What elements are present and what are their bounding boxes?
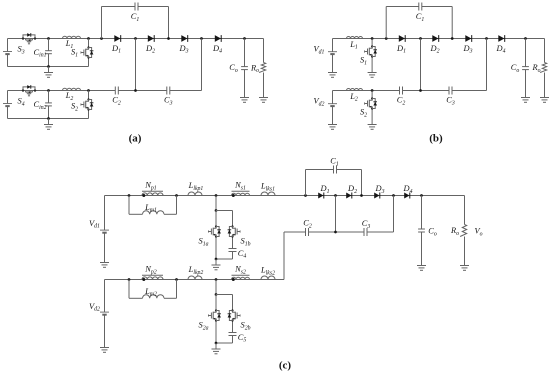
- label Co (b): [511, 63, 520, 74]
- wire S1 block bottom: [216, 258, 233, 260]
- label C2 (a): [112, 96, 121, 107]
- ground Co (c): [417, 260, 426, 271]
- wire Lm2 bottom left: [129, 297, 143, 299]
- node ground (a upper): [47, 65, 50, 68]
- wire riser C3 row to D3D4 (a): [201, 39, 203, 91]
- inductor L1 (b): [347, 37, 363, 39]
- svg-text:D1: D1: [396, 44, 406, 55]
- capacitor C3 (b): [449, 87, 452, 95]
- label C2 (c): [303, 219, 312, 230]
- svg-text:D4: D4: [212, 44, 222, 55]
- label S2b: [241, 321, 251, 332]
- transistor S2a: [208, 295, 221, 344]
- capacitor Co (a): [241, 39, 248, 92]
- wire Lm2 bottom right: [164, 297, 177, 299]
- capacitor Co (b): [522, 39, 529, 92]
- wire C1 right leg (c): [361, 170, 363, 196]
- label L1 (a): [65, 39, 74, 50]
- ground Vd1 (c): [100, 257, 109, 268]
- ground (a upper): [44, 67, 53, 78]
- svg-text:Co: Co: [428, 227, 437, 238]
- node Np2 right: [175, 278, 178, 281]
- winding Ns1: [232, 191, 250, 197]
- svg-text:Lm2: Lm2: [144, 287, 157, 298]
- capacitor Cin1: [45, 39, 52, 67]
- label (a): [129, 133, 142, 145]
- ground Ro (c): [460, 260, 469, 271]
- label Ro (b): [531, 63, 540, 74]
- winding Ns2: [232, 275, 250, 281]
- svg-text:S1: S1: [360, 56, 367, 67]
- diode D2 (b): [432, 35, 438, 42]
- transistor S4: [22, 85, 36, 96]
- node C1 right (a): [167, 37, 170, 40]
- wire Ro top (a): [263, 39, 265, 63]
- svg-text:L2: L2: [349, 92, 358, 103]
- svg-text:Lm1: Lm1: [144, 203, 157, 214]
- wire C1 left leg (c): [305, 170, 307, 196]
- node S1 block split: [215, 209, 218, 212]
- wire Lm2 right leg: [176, 280, 178, 299]
- label L2 (a): [65, 91, 74, 102]
- svg-text:C3: C3: [362, 219, 371, 230]
- label Vd1 (c): [89, 219, 100, 230]
- battery Vd1 (c): [100, 196, 109, 257]
- label C3 (c): [362, 219, 371, 230]
- transistor S2 (b): [365, 91, 378, 119]
- capacitor C3 (c): [364, 228, 367, 236]
- diode D2 (a): [148, 35, 154, 42]
- ground S2 block: [212, 343, 221, 354]
- winding Np1: [142, 191, 163, 197]
- svg-text:Ro: Ro: [531, 63, 540, 74]
- transistor S2b: [228, 295, 241, 333]
- node S2 block tap: [215, 278, 218, 281]
- wire (a) lower rail left: [8, 90, 116, 92]
- svg-text:S2a: S2a: [199, 321, 209, 332]
- wire (c) row right: [367, 231, 394, 233]
- label L1 (b): [349, 40, 358, 51]
- diode D3 (c): [374, 193, 380, 199]
- diode D3 (a): [181, 35, 187, 42]
- capacitor C2 (b): [400, 87, 403, 95]
- label (c): [279, 360, 292, 372]
- transistor S1a: [208, 211, 221, 260]
- transistor S3: [22, 33, 36, 44]
- wire Ro bottom (b): [544, 73, 546, 92]
- label S1a: [199, 237, 209, 248]
- wire Lm1 left leg: [128, 196, 130, 215]
- label Llks1: [260, 182, 275, 193]
- label C1 (b): [416, 12, 425, 23]
- wire Lm1 bottom right: [164, 213, 177, 215]
- label S1b: [241, 237, 251, 248]
- wire C1 left leg (b): [385, 7, 387, 39]
- node D3-D4 (b): [485, 37, 488, 40]
- wire S2 block riser: [215, 280, 217, 295]
- svg-text:C1: C1: [330, 157, 339, 168]
- node Np2 left: [128, 278, 131, 281]
- label S4: [18, 97, 25, 108]
- battery Vd2 (c): [100, 280, 109, 342]
- node C1 right (c): [360, 194, 363, 197]
- wire riser D1D2 to C2 row (a): [135, 39, 137, 91]
- wire (c) row mid: [309, 231, 365, 233]
- node output (c): [420, 194, 423, 197]
- wire riser D1D2 to C2 row (c): [335, 196, 337, 233]
- svg-text:D3: D3: [463, 44, 473, 55]
- node D1-D2 (c): [334, 194, 337, 197]
- svg-text:Llkp2: Llkp2: [188, 265, 204, 276]
- svg-text:D1: D1: [320, 184, 330, 195]
- svg-text:Ns1: Ns1: [234, 181, 246, 192]
- svg-text:Co: Co: [229, 63, 238, 74]
- label Llks2: [260, 266, 275, 277]
- wire (a) top rail: [8, 38, 264, 40]
- label Vd2 (b): [314, 97, 325, 108]
- svg-text:(c): (c): [279, 360, 292, 372]
- battery Vd1 (b): [328, 39, 337, 67]
- node S2 block bottom: [215, 342, 218, 345]
- node C1 right (b): [451, 37, 454, 40]
- node D1-D2 (b): [419, 37, 422, 40]
- wire C1 right leg (a): [168, 7, 170, 39]
- svg-text:D2: D2: [145, 44, 155, 55]
- label C4: [238, 249, 247, 260]
- svg-text:C5: C5: [238, 333, 247, 344]
- label C3 (b): [446, 96, 455, 107]
- svg-text:Ro: Ro: [450, 226, 459, 237]
- svg-text:S4: S4: [18, 97, 25, 108]
- svg-text:Vd1: Vd1: [314, 45, 325, 56]
- svg-text:D1: D1: [111, 44, 121, 55]
- svg-text:Llks1: Llks1: [260, 182, 275, 193]
- node S1 block tap: [215, 194, 218, 197]
- node Np1 right: [175, 194, 178, 197]
- label D1 (b): [396, 44, 406, 55]
- inductor Llkp2: [188, 276, 202, 280]
- capacitor C1 (c): [306, 166, 362, 174]
- svg-text:C2: C2: [303, 219, 312, 230]
- wire (a) upper bottom rail: [8, 66, 89, 68]
- label Cin1: [33, 48, 46, 59]
- wire (b) lower rail left: [333, 90, 400, 92]
- wire Lm1 right leg: [176, 196, 178, 215]
- label Lm2: [144, 287, 157, 298]
- label D2 (c): [347, 184, 357, 195]
- label D4 (a): [212, 44, 222, 55]
- svg-text:C3: C3: [446, 96, 455, 107]
- label Ro (c): [450, 226, 459, 237]
- svg-text:S3: S3: [18, 45, 25, 56]
- diode D1 (b): [399, 35, 405, 42]
- capacitor Co (c): [418, 196, 425, 260]
- diode D4 (c): [404, 193, 410, 199]
- diode D4 (b): [498, 35, 504, 42]
- node S1 drain (a): [87, 37, 90, 40]
- svg-text:Co: Co: [511, 63, 520, 74]
- capacitor C5: [229, 333, 237, 344]
- label Ns1: [234, 181, 246, 192]
- wire Lm2 left leg: [128, 280, 130, 299]
- node S2 drain (b): [371, 89, 374, 92]
- label C3 (a): [164, 96, 173, 107]
- label Vd2 (c): [89, 302, 100, 313]
- label Co (c): [428, 227, 437, 238]
- svg-text:S1: S1: [71, 48, 78, 59]
- ground S1 (b): [368, 67, 377, 78]
- diode D1 (a): [114, 35, 120, 42]
- wire (c) lower rail: [105, 279, 285, 281]
- wire (c) upper rail: [105, 195, 465, 197]
- resistor Ro (a): [259, 63, 266, 73]
- ground Vd2 (b): [328, 119, 337, 130]
- label Ro (a): [250, 63, 259, 74]
- wire C1 right leg (b): [451, 7, 453, 39]
- wire (c) row left: [284, 231, 306, 233]
- diode D3 (b): [465, 35, 471, 42]
- node output (b): [524, 37, 527, 40]
- svg-text:S2b: S2b: [241, 321, 251, 332]
- wire (c) row drop: [283, 232, 285, 280]
- svg-text:Np2: Np2: [144, 265, 156, 276]
- battery Vd2 (b): [328, 91, 337, 119]
- wire S2 block bottom: [216, 342, 233, 344]
- node Cin2 top: [47, 89, 50, 92]
- label S1 (b): [360, 56, 367, 67]
- svg-text:Vo: Vo: [474, 227, 482, 238]
- capacitor C2 (c): [306, 228, 309, 236]
- ground S1 block: [212, 259, 221, 270]
- svg-text:Vd2: Vd2: [314, 97, 325, 108]
- wire (a) lower bottom rail: [8, 118, 89, 120]
- wire S2b top branch: [216, 294, 233, 296]
- label Np2: [144, 265, 156, 276]
- wire S1 block riser: [215, 196, 217, 211]
- ground Co (a): [240, 92, 249, 103]
- svg-text:S2: S2: [360, 108, 367, 119]
- battery V1 (a upper): [3, 39, 12, 67]
- node Cin1 top: [47, 37, 50, 40]
- label D4 (b): [496, 44, 506, 55]
- svg-text:Vd2: Vd2: [89, 302, 100, 313]
- wire (b) C2-C3 row: [403, 90, 450, 92]
- svg-text:Llks2: Llks2: [260, 266, 275, 277]
- svg-text:C2: C2: [112, 96, 121, 107]
- node D1-D2 (a): [134, 37, 137, 40]
- node C1 left (b): [385, 37, 388, 40]
- diode D2 (c): [346, 193, 352, 199]
- inductor Lm2: [143, 295, 165, 299]
- node S1 block bottom: [215, 258, 218, 261]
- node row riser (c): [334, 231, 337, 234]
- svg-text:S1b: S1b: [241, 237, 251, 248]
- svg-text:D3: D3: [179, 44, 189, 55]
- wire C1 left leg (a): [101, 7, 103, 39]
- ground Vd2 (c): [100, 342, 109, 353]
- svg-text:C1: C1: [131, 12, 140, 23]
- label S3: [18, 45, 25, 56]
- node Np1 left: [128, 194, 131, 197]
- wire Ro bottom (c): [464, 237, 466, 260]
- wire (a) row to riser: [170, 90, 202, 92]
- wire (b) row right: [452, 90, 487, 92]
- inductor L1 (a): [63, 36, 81, 38]
- node D3-D4 (c): [392, 194, 395, 197]
- wire riser D1D2 to C2 row (b): [420, 39, 422, 91]
- transistor S1 (b): [365, 39, 378, 67]
- diode D1 (c): [318, 193, 324, 199]
- node S2 block split: [215, 293, 218, 296]
- diode D4 (a): [215, 35, 221, 42]
- capacitor C1 (b): [386, 3, 452, 11]
- wire (a) C2-C3 row: [118, 90, 167, 92]
- svg-text:S2: S2: [71, 102, 78, 113]
- node C1 left (c): [304, 194, 307, 197]
- wire Ro bottom (a): [263, 73, 265, 92]
- label Ns2: [234, 265, 246, 276]
- wire S1b top branch: [216, 210, 233, 212]
- inductor Lm1: [143, 211, 165, 215]
- svg-text:Ro: Ro: [250, 63, 259, 74]
- resistor Ro (b): [540, 63, 547, 73]
- ground Ro (b): [540, 92, 549, 103]
- transistor S2 (a): [81, 91, 94, 119]
- label (b): [429, 133, 443, 145]
- wire riser C3 row to D3D4 (b): [486, 39, 488, 91]
- capacitor C3 (a): [167, 87, 170, 95]
- node S1 drain (b): [371, 37, 374, 40]
- inductor L2 (a): [63, 88, 81, 90]
- label C5: [238, 333, 247, 344]
- svg-text:D4: D4: [403, 184, 413, 195]
- label S2 (a): [71, 102, 78, 113]
- svg-text:Np1: Np1: [144, 181, 156, 192]
- wire Lm1 bottom left: [129, 213, 143, 215]
- svg-text:C3: C3: [164, 96, 173, 107]
- label D2 (a): [145, 44, 155, 55]
- ground Ro (a): [259, 92, 268, 103]
- ground Vd1 (b): [328, 67, 337, 78]
- node ground (a lower): [47, 117, 50, 120]
- svg-text:Vd1: Vd1: [89, 219, 100, 230]
- svg-text:D4: D4: [496, 44, 506, 55]
- label D1 (a): [111, 44, 121, 55]
- ground (a lower): [44, 119, 53, 130]
- label D4 (c): [403, 184, 413, 195]
- label D3 (a): [179, 44, 189, 55]
- wire Ro top (c): [464, 196, 466, 225]
- svg-text:D2: D2: [430, 44, 440, 55]
- label D3 (b): [463, 44, 473, 55]
- label Co (a): [229, 63, 238, 74]
- node D3-D4 (a): [200, 37, 203, 40]
- label S1 (a): [71, 48, 78, 59]
- resistor Ro (c): [460, 225, 467, 237]
- svg-text:Cin1: Cin1: [33, 48, 46, 59]
- capacitor C1 (a): [102, 3, 169, 11]
- node S2 drain (a): [87, 89, 90, 92]
- transistor S1 (a): [81, 39, 94, 67]
- ground Co (b): [521, 92, 530, 103]
- label Np1: [144, 181, 156, 192]
- label Cin2: [33, 100, 46, 111]
- winding Np2: [142, 275, 163, 281]
- wire riser C3 row to D3D4 (c): [393, 196, 395, 233]
- svg-text:Ns2: Ns2: [234, 265, 246, 276]
- label C1 (a): [131, 12, 140, 23]
- svg-text:(a): (a): [129, 133, 142, 145]
- wire (b) top rail: [333, 38, 545, 40]
- svg-text:Cin2: Cin2: [33, 100, 46, 111]
- inductor Llks1: [261, 192, 275, 196]
- label D1 (c): [320, 184, 330, 195]
- label S2a: [199, 321, 209, 332]
- label Lm1: [144, 203, 157, 214]
- label Vd1 (b): [314, 45, 325, 56]
- inductor Llks2: [261, 276, 275, 280]
- label Vo (c): [474, 227, 482, 238]
- svg-text:S1a: S1a: [199, 237, 209, 248]
- label L2 (b): [349, 92, 358, 103]
- capacitor C2 (a): [115, 87, 118, 95]
- svg-text:Llkp1: Llkp1: [188, 181, 204, 192]
- node C2C3 riser (a): [134, 89, 137, 92]
- inductor Llkp1: [188, 192, 202, 196]
- label Llkp1: [188, 181, 204, 192]
- node C1 left (a): [100, 37, 103, 40]
- transistor S1b: [228, 211, 241, 249]
- svg-text:C4: C4: [238, 249, 247, 260]
- node C2C3 riser (b): [419, 89, 422, 92]
- label C2 (b): [397, 96, 406, 107]
- battery V2 (a lower): [3, 91, 12, 119]
- capacitor Cin2: [45, 91, 52, 119]
- svg-text:L2: L2: [65, 91, 74, 102]
- node output (a): [243, 37, 246, 40]
- label Llkp2: [188, 265, 204, 276]
- label D2 (b): [430, 44, 440, 55]
- label S2 (b): [360, 108, 367, 119]
- label D3 (c): [375, 184, 385, 195]
- svg-text:C1: C1: [416, 12, 425, 23]
- svg-text:L1: L1: [349, 40, 358, 51]
- wire Ro top (b): [544, 39, 546, 63]
- label C1 (c): [330, 157, 339, 168]
- ground S2 (b): [368, 119, 377, 130]
- svg-text:C2: C2: [397, 96, 406, 107]
- svg-text:(b): (b): [429, 133, 443, 145]
- inductor L2 (b): [347, 89, 363, 91]
- capacitor C4: [229, 249, 237, 260]
